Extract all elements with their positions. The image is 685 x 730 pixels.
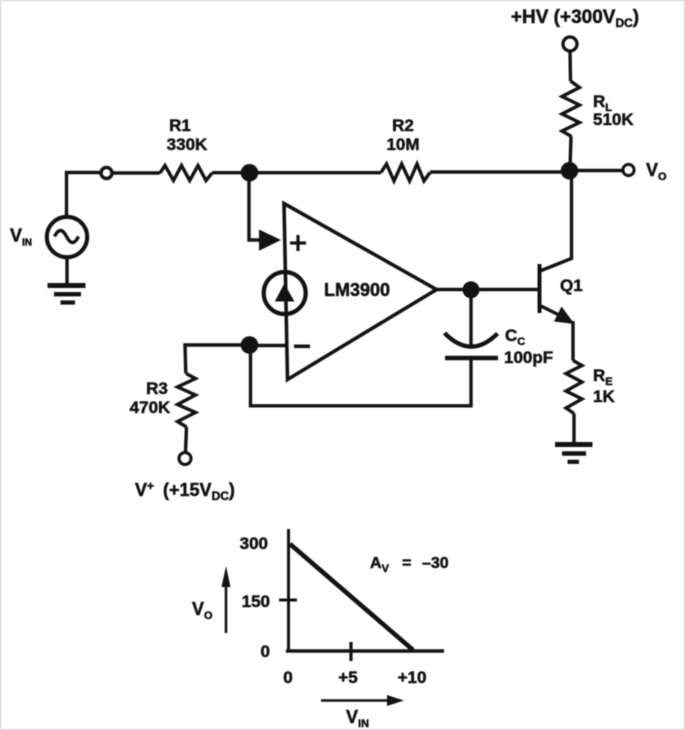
input terminal (open circle) [101, 168, 112, 179]
wire: R1 to R2 [212, 171, 381, 174]
wire: node to Vo terminal [577, 169, 622, 172]
wire: R2 to output node [430, 170, 569, 173]
wire: node A down to + input [249, 180, 260, 240]
svg-text:510K: 510K [593, 110, 634, 129]
capacitor CC bottom plate [445, 356, 498, 360]
svg-text:150: 150 [242, 592, 270, 611]
wire: R3 to V+ terminal [186, 427, 187, 453]
wire: Vin to ground [65, 257, 68, 284]
svg-text:300: 300 [240, 534, 268, 553]
svg-text:1K: 1K [593, 387, 615, 406]
capacitor CC top plate (curved) [445, 333, 498, 347]
Q1 emitter [541, 306, 560, 316]
svg-text:R2: R2 [392, 116, 414, 135]
resistor RE [566, 361, 582, 414]
graph y-axis [287, 529, 290, 652]
wire: +HV terminal to RL [568, 51, 572, 82]
svg-text:10M: 10M [386, 135, 419, 154]
graph transfer line [290, 544, 413, 650]
node B (minus input junction) [241, 336, 259, 354]
Vo axis arrow [225, 582, 228, 633]
Vin axis arrow [321, 699, 389, 702]
svg-text:+5: +5 [338, 668, 357, 687]
svg-text:+10: +10 [398, 668, 427, 687]
wire: op-amp output to node [437, 288, 466, 291]
transistor Q1 base bar [538, 264, 542, 313]
minus input mark [294, 344, 310, 348]
Q1 collector [540, 176, 572, 271]
wire: RE to ground [572, 414, 575, 443]
graph x-axis [286, 649, 444, 652]
wire: terminal to R1 [112, 171, 160, 174]
wire: emitter to RE [571, 321, 574, 361]
svg-text:330K: 330K [167, 135, 208, 154]
node A (junction R1/R2/+input) [241, 164, 259, 182]
+HV terminal (open circle) [563, 37, 577, 51]
output terminal Vo (open circle) [623, 164, 634, 175]
ground (Vin) [48, 286, 86, 303]
sine symbol [55, 231, 79, 243]
tick +5 [349, 642, 352, 661]
resistor RL [562, 81, 580, 137]
svg-text:470K: 470K [130, 398, 171, 417]
resistor R3 [178, 374, 196, 428]
tick 150 [279, 599, 297, 602]
wire: minus node to R3 corner [185, 345, 250, 374]
source Vin (AC) [47, 217, 87, 257]
wire: feedback from minus node down and right [251, 353, 472, 406]
current source (circle with up arrow) [264, 272, 306, 314]
wire: output node down to CC [469, 290, 472, 347]
svg-text:Q1: Q1 [560, 276, 583, 295]
wire: node to Q1 base [471, 288, 538, 291]
V+ terminal (open circle) [179, 453, 191, 465]
resistor R2 [381, 164, 430, 181]
svg-text:R3: R3 [146, 379, 168, 398]
resistor R1 [160, 166, 212, 181]
arrowhead into + input [259, 230, 281, 251]
wire: minus node to op-amp [250, 344, 289, 347]
wire: RL to node Vo [570, 137, 571, 169]
svg-text:100pF: 100pF [504, 348, 553, 367]
svg-text:0: 0 [261, 642, 270, 661]
svg-text:0: 0 [283, 668, 292, 687]
plus input mark [290, 235, 306, 251]
ground (Q1) [555, 445, 593, 462]
op-amp U1 triangle [284, 204, 437, 380]
Q1 emitter arrowhead [554, 307, 575, 325]
svg-text:LM3900: LM3900 [324, 280, 390, 300]
node Vo (junction RL/R2/Q1/Vo) [561, 162, 579, 180]
node C (op-amp output junction) [463, 281, 480, 298]
wire: Vin source to input terminal [67, 173, 102, 218]
svg-text:R1: R1 [169, 116, 191, 135]
